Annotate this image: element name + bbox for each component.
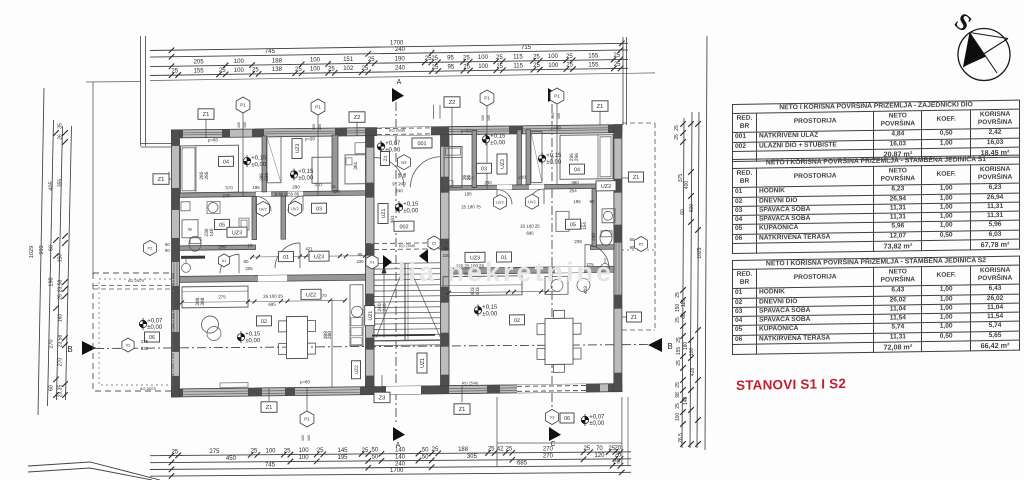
svg-text:06: 06	[564, 416, 570, 422]
right terrace lines	[496, 397, 498, 466]
porch marks	[398, 155, 411, 170]
svg-text:285: 285	[204, 171, 210, 179]
wardrobe left	[267, 137, 281, 183]
svg-text:UV2: UV2	[496, 201, 503, 205]
left exterior wall	[172, 130, 180, 397]
svg-text:148: 148	[683, 397, 689, 406]
svg-text:405: 405	[49, 181, 55, 190]
svg-text:UZ1: UZ1	[368, 311, 374, 321]
svg-text:UV2: UV2	[291, 207, 298, 211]
svg-text:60: 60	[681, 313, 687, 319]
svg-text:296: 296	[574, 153, 580, 161]
svg-text:06: 06	[149, 335, 155, 341]
svg-text:A: A	[396, 442, 401, 449]
svg-text:Z1: Z1	[633, 175, 639, 181]
svg-text:p=60: p=60	[208, 137, 218, 142]
svg-text:450: 450	[226, 456, 237, 462]
svg-text:745: 745	[265, 49, 276, 55]
bed right2	[560, 135, 613, 180]
svg-text:Z1: Z1	[203, 112, 210, 118]
bed right1	[444, 147, 462, 188]
svg-text:1700: 1700	[390, 468, 404, 474]
svg-text:04: 04	[223, 159, 229, 165]
svg-text:145: 145	[337, 448, 348, 454]
svg-text:240: 240	[382, 303, 388, 311]
svg-text:15: 15	[248, 243, 253, 248]
svg-text:240: 240	[395, 461, 406, 467]
svg-text:388: 388	[327, 331, 333, 339]
right side dashed strip	[622, 122, 655, 124]
svg-text:50: 50	[372, 448, 379, 454]
top exterior wall	[172, 125, 622, 138]
svg-text:195: 195	[337, 455, 348, 461]
svg-text:370: 370	[225, 185, 233, 190]
svg-text:160: 160	[307, 435, 311, 441]
svg-text:02: 02	[514, 318, 520, 324]
svg-text:25: 25	[533, 54, 540, 60]
svg-text:1700: 1700	[390, 40, 404, 46]
room labels	[219, 156, 234, 166]
svg-text:02: 02	[261, 319, 267, 325]
svg-text:355: 355	[58, 179, 64, 188]
svg-text:01: 01	[283, 255, 289, 261]
svg-text:100: 100	[689, 348, 695, 357]
svg-text:421: 421	[305, 246, 313, 251]
svg-text:AG 26/70: AG 26/70	[140, 387, 156, 391]
svg-text:A1: A1	[222, 259, 226, 263]
svg-text:188: 188	[272, 58, 283, 64]
svg-text:95: 95	[358, 252, 363, 257]
svg-text:160: 160	[318, 124, 322, 130]
svg-text:100: 100	[478, 64, 489, 70]
svg-text:P2: P2	[639, 243, 644, 247]
svg-text:±0,00: ±0,00	[147, 325, 163, 331]
svg-text:190: 190	[395, 56, 406, 62]
svg-text:Z2: Z2	[449, 100, 456, 106]
svg-text:150: 150	[58, 254, 64, 263]
svg-text:25: 25	[328, 66, 335, 72]
svg-text:95: 95	[447, 65, 454, 71]
svg-text:60: 60	[590, 199, 595, 204]
svg-text:403: 403	[475, 287, 481, 295]
svg-text:+0,15: +0,15	[546, 153, 562, 159]
svg-text:195: 195	[573, 199, 581, 204]
svg-text:25: 25	[675, 292, 681, 298]
svg-text:+0,15: +0,15	[298, 169, 314, 175]
svg-text:UV2: UV2	[528, 200, 535, 204]
svg-text:296: 296	[264, 172, 270, 180]
svg-text:A: A	[397, 79, 402, 86]
svg-text:993: 993	[39, 245, 45, 254]
svg-text:235: 235	[141, 346, 149, 351]
compass	[958, 29, 1010, 81]
svg-text:270: 270	[543, 453, 554, 459]
svg-text:UV2: UV2	[259, 207, 266, 211]
svg-text:100: 100	[234, 59, 245, 65]
svg-text:±0,00: ±0,00	[251, 162, 267, 168]
corridor doors right unit	[497, 189, 512, 204]
svg-text:25: 25	[674, 125, 680, 131]
svg-text:160: 160	[243, 122, 247, 128]
svg-text:220: 220	[357, 259, 365, 264]
svg-text:V2: V2	[126, 344, 131, 348]
kitchen right	[443, 276, 522, 296]
svg-text:V1: V1	[370, 261, 375, 265]
svg-text:±0,00: ±0,00	[546, 160, 562, 166]
svg-text:100: 100	[548, 63, 559, 69]
svg-text:290: 290	[484, 180, 492, 185]
svg-text:UZ2: UZ2	[354, 365, 360, 374]
svg-text:100: 100	[675, 413, 681, 422]
svg-text:UZ3: UZ3	[232, 230, 242, 236]
svg-text:+0,15: +0,15	[245, 331, 261, 337]
svg-text:Z1: Z1	[597, 104, 604, 110]
svg-text:960: 960	[571, 180, 579, 185]
svg-text:25: 25	[251, 449, 258, 455]
svg-text:428: 428	[690, 368, 696, 377]
svg-text:W1: W1	[401, 161, 407, 165]
svg-text:UZ1: UZ1	[381, 208, 387, 218]
svg-text:25: 25	[533, 63, 540, 69]
svg-text:254: 254	[569, 188, 577, 193]
window labels	[198, 109, 214, 120]
svg-text:195: 195	[464, 191, 472, 196]
svg-text:25: 25	[506, 447, 513, 453]
stair core walls	[366, 136, 375, 387]
svg-text:100: 100	[299, 448, 310, 454]
svg-text:35: 35	[58, 123, 64, 129]
svg-text:90: 90	[165, 248, 170, 253]
svg-text:400: 400	[684, 181, 690, 190]
svg-text:115: 115	[681, 299, 687, 307]
svg-text:UZ3: UZ3	[314, 254, 324, 260]
svg-text:275: 275	[209, 449, 220, 455]
svg-text:26,5: 26,5	[678, 433, 684, 443]
svg-text:20: 20	[615, 446, 622, 452]
svg-text:715: 715	[521, 45, 532, 51]
svg-text:100: 100	[310, 58, 321, 64]
bed left2	[312, 157, 332, 183]
svg-text:100: 100	[478, 55, 489, 61]
door hexes	[257, 201, 270, 216]
svg-text:151: 151	[343, 57, 354, 63]
svg-text:60: 60	[49, 245, 55, 251]
svg-text:002: 002	[400, 224, 409, 230]
svg-text:25: 25	[368, 57, 375, 63]
svg-text:155: 155	[194, 68, 205, 74]
svg-text:25: 25	[432, 65, 439, 71]
svg-text:96: 96	[402, 172, 407, 178]
svg-text:25: 25	[566, 63, 573, 69]
svg-text:140: 140	[395, 455, 406, 461]
svg-text:42: 42	[497, 447, 504, 453]
bathroom left	[181, 202, 190, 211]
svg-text:239: 239	[574, 239, 582, 244]
svg-text:685: 685	[517, 460, 528, 466]
svg-text:+0,15: +0,15	[403, 202, 419, 208]
svg-text:220: 220	[332, 189, 340, 194]
svg-text:Z1: Z1	[266, 405, 273, 411]
svg-text:100: 100	[310, 67, 321, 73]
svg-text:p=60: p=60	[461, 128, 471, 133]
svg-text:388: 388	[200, 297, 206, 305]
svg-text:160: 160	[58, 314, 64, 323]
svg-text:UZ3: UZ3	[500, 159, 506, 169]
left unit partitions	[180, 191, 366, 198]
leader lines	[205, 116, 207, 138]
svg-text:p=90: p=90	[551, 125, 561, 130]
svg-text:B: B	[67, 345, 72, 354]
svg-text:310: 310	[314, 182, 322, 187]
svg-text:25: 25	[566, 54, 573, 60]
svg-text:205: 205	[194, 60, 205, 66]
svg-text:240: 240	[591, 233, 597, 241]
svg-text:UZ2: UZ2	[306, 292, 316, 298]
svg-text:25: 25	[362, 448, 369, 454]
svg-text:25: 25	[583, 446, 590, 452]
svg-text:100: 100	[299, 455, 310, 461]
svg-text:25: 25	[295, 67, 302, 73]
svg-text:25 180 75: 25 180 75	[461, 204, 481, 209]
svg-text:205: 205	[245, 266, 253, 271]
corridor doors left unit	[256, 196, 271, 211]
svg-text:155: 155	[676, 347, 682, 356]
svg-text:25: 25	[674, 134, 680, 140]
svg-text:25: 25	[675, 382, 681, 388]
svg-text:+0,07: +0,07	[147, 319, 163, 325]
svg-text:23,58: 23,58	[58, 280, 64, 293]
svg-text:UZ3: UZ3	[295, 143, 301, 153]
svg-text:UZ2: UZ2	[601, 184, 611, 190]
svg-text:25 100 25: 25 100 25	[263, 294, 283, 299]
svg-text:w: w	[188, 227, 192, 233]
svg-text:100: 100	[265, 449, 276, 455]
svg-text:C: C	[550, 441, 555, 448]
svg-text:310: 310	[466, 175, 474, 180]
svg-text:290: 290	[292, 184, 300, 189]
Z3 label	[374, 392, 390, 403]
svg-text:+0,15: +0,15	[482, 305, 498, 311]
svg-text:50: 50	[372, 455, 379, 461]
svg-text:±0,00: ±0,00	[245, 338, 261, 344]
svg-text:Z1: Z1	[158, 177, 165, 183]
svg-text:90: 90	[630, 245, 635, 250]
svg-text:05: 05	[570, 222, 576, 228]
svg-text:95: 95	[447, 56, 454, 62]
svg-text:695: 695	[526, 231, 534, 236]
svg-text:188: 188	[458, 447, 469, 453]
svg-text:Z1: Z1	[459, 407, 466, 413]
svg-text:25: 25	[614, 62, 621, 68]
svg-text:25: 25	[431, 56, 438, 62]
svg-text:25: 25	[252, 68, 259, 74]
svg-text:25: 25	[676, 360, 682, 366]
svg-text:25: 25	[362, 66, 369, 72]
svg-text:155: 155	[588, 54, 599, 60]
svg-text:P2: P2	[148, 247, 153, 251]
svg-text:305: 305	[467, 454, 478, 460]
svg-text:275: 275	[141, 339, 149, 344]
svg-text:50: 50	[422, 454, 429, 460]
svg-text:138: 138	[272, 67, 283, 73]
svg-text:001: 001	[418, 141, 427, 147]
svg-text:275: 275	[218, 294, 226, 299]
svg-text:100: 100	[301, 435, 305, 441]
svg-text:60: 60	[680, 209, 686, 215]
svg-text:25: 25	[219, 68, 226, 74]
svg-text:60: 60	[49, 385, 55, 391]
dining table left	[287, 316, 308, 358]
svg-text:+0,07: +0,07	[385, 141, 401, 147]
shelving column near stair wall	[350, 285, 363, 346]
svg-text:lia nekretnine: lia nekretnine	[398, 257, 614, 287]
svg-text:25: 25	[171, 69, 178, 75]
site boundary	[28, 462, 160, 480]
svg-text:RO 25/40: RO 25/40	[389, 129, 405, 133]
svg-text:P1: P1	[554, 94, 560, 99]
svg-text:±0,00: ±0,00	[298, 175, 314, 181]
svg-text:±0,00: ±0,00	[589, 421, 605, 427]
svg-text:Z3: Z3	[379, 396, 386, 402]
svg-text:+0,07: +0,07	[589, 415, 605, 421]
entrance doors	[374, 157, 404, 187]
svg-text:25: 25	[463, 55, 470, 61]
svg-text:160: 160	[487, 115, 491, 121]
svg-text:60: 60	[165, 242, 170, 247]
svg-text:361: 361	[353, 161, 359, 169]
svg-text:100: 100	[481, 115, 485, 121]
svg-text:+0,15: +0,15	[490, 133, 506, 139]
svg-text:Z1: Z1	[383, 155, 389, 161]
bathroom door left	[220, 254, 239, 273]
svg-text:100: 100	[312, 124, 316, 130]
svg-text:100: 100	[551, 113, 555, 119]
svg-text:102: 102	[343, 66, 354, 72]
wardrobe right	[531, 132, 542, 183]
svg-text:p=60: p=60	[300, 379, 310, 384]
svg-text:745: 745	[265, 462, 276, 468]
svg-text:155: 155	[588, 62, 599, 68]
svg-text:03: 03	[316, 206, 322, 212]
svg-text:25: 25	[317, 448, 324, 454]
svg-text:100: 100	[234, 68, 245, 74]
right unit partitions	[449, 184, 614, 190]
svg-text:25: 25	[463, 64, 470, 70]
svg-text:RO 25/40: RO 25/40	[399, 244, 415, 248]
svg-text:259: 259	[218, 244, 226, 249]
level marks	[243, 157, 250, 164]
svg-text:60: 60	[630, 237, 635, 242]
svg-text:100: 100	[548, 54, 559, 60]
svg-text:AG 25/70: AG 25/70	[128, 279, 144, 283]
svg-text:240: 240	[395, 65, 406, 71]
svg-text:1029: 1029	[697, 247, 703, 258]
svg-text:P1: P1	[304, 417, 310, 422]
svg-text:1029: 1029	[29, 246, 35, 258]
svg-text:25: 25	[496, 64, 503, 70]
svg-text:100: 100	[237, 122, 241, 128]
svg-text:240: 240	[395, 188, 403, 193]
svg-text:98: 98	[675, 392, 681, 398]
svg-text:154: 154	[582, 222, 588, 230]
svg-text:240: 240	[395, 47, 406, 53]
svg-text:P1: P1	[315, 105, 321, 110]
svg-text:+0,15: +0,15	[251, 155, 267, 161]
svg-text:120: 120	[594, 453, 605, 459]
svg-text:115: 115	[513, 64, 523, 70]
svg-text:04: 04	[574, 167, 580, 173]
svg-text:±0,00: ±0,00	[490, 140, 506, 146]
svg-text:25: 25	[432, 447, 439, 453]
svg-text:Z2: Z2	[432, 242, 436, 246]
svg-text:20: 20	[615, 453, 622, 459]
svg-text:195: 195	[252, 185, 260, 190]
svg-text:25 100 25: 25 100 25	[520, 224, 540, 229]
bathroom right	[602, 209, 615, 223]
svg-text:UZ1: UZ1	[420, 358, 426, 368]
svg-text:25: 25	[496, 55, 503, 61]
svg-text:160: 160	[557, 113, 561, 119]
svg-text:70: 70	[596, 446, 603, 452]
svg-text:50: 50	[422, 447, 429, 453]
kitchen doors	[275, 243, 300, 268]
svg-text:20: 20	[613, 460, 620, 466]
svg-text:P1: P1	[484, 96, 490, 101]
bed left1	[181, 145, 239, 193]
svg-text:270: 270	[58, 358, 64, 367]
svg-text:276: 276	[222, 193, 230, 198]
svg-text:25: 25	[284, 448, 291, 454]
left terrace dashed	[93, 273, 173, 391]
svg-text:80: 80	[244, 259, 249, 264]
svg-text:B: B	[667, 342, 672, 351]
svg-text:03: 03	[481, 166, 487, 172]
svg-text:115: 115	[513, 55, 523, 61]
svg-text:Z2: Z2	[354, 115, 361, 121]
svg-text:6 85 6 55 85: 6 85 6 55 85	[275, 191, 300, 196]
svg-text:V3: V3	[550, 416, 555, 420]
svg-text:198: 198	[49, 277, 55, 286]
svg-text:95: 95	[444, 246, 449, 251]
dining table right	[545, 318, 573, 364]
svg-text:600: 600	[689, 204, 695, 213]
svg-text:±0,00: ±0,00	[403, 208, 419, 214]
svg-text:p=90: p=90	[305, 136, 315, 141]
svg-text:Z1: Z1	[631, 315, 637, 321]
kitchen left	[182, 286, 248, 308]
svg-text:RO 25/40: RO 25/40	[462, 381, 478, 385]
svg-text:25: 25	[614, 53, 621, 59]
svg-text:695: 695	[268, 302, 276, 307]
svg-text:05: 05	[219, 222, 225, 228]
stairs	[374, 262, 441, 265]
svg-text:91 240: 91 240	[392, 181, 406, 186]
svg-text:25: 25	[171, 449, 178, 455]
svg-text:25: 25	[488, 447, 495, 453]
svg-text:±0,00: ±0,00	[482, 311, 498, 317]
svg-text:270: 270	[49, 339, 55, 348]
svg-text:P1: P1	[240, 103, 246, 108]
svg-text:220: 220	[518, 175, 526, 180]
bottom exterior wall	[172, 384, 622, 397]
svg-text:25: 25	[675, 403, 681, 409]
right exterior wall	[614, 125, 622, 392]
